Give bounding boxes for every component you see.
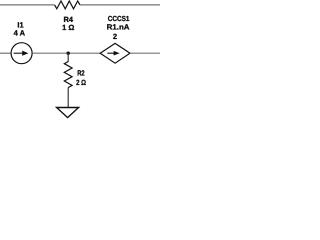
current source I1 <box>11 43 32 64</box>
wire R2 bottom lead <box>67 88 69 108</box>
svg-text:R1.nA: R1.nA <box>107 22 130 31</box>
svg-text:2: 2 <box>113 32 117 41</box>
wire top-right segment <box>80 4 160 6</box>
svg-text:4 A: 4 A <box>14 28 26 37</box>
wire top-left segment <box>0 4 55 6</box>
svg-text:2 Ω: 2 Ω <box>76 78 86 87</box>
CCCS source CCCS1 (diamond) <box>100 43 130 63</box>
wire middle-left segment <box>0 52 11 54</box>
ground <box>57 108 79 118</box>
resistor R4 <box>55 1 80 9</box>
svg-text:R2: R2 <box>77 69 85 78</box>
wire R2 top lead <box>67 53 69 62</box>
wire middle segment to diamond <box>33 52 101 54</box>
wire middle-right segment <box>130 52 160 54</box>
svg-text:1 Ω: 1 Ω <box>62 23 74 32</box>
node junction dot <box>67 52 70 55</box>
resistor R2 <box>64 62 72 88</box>
